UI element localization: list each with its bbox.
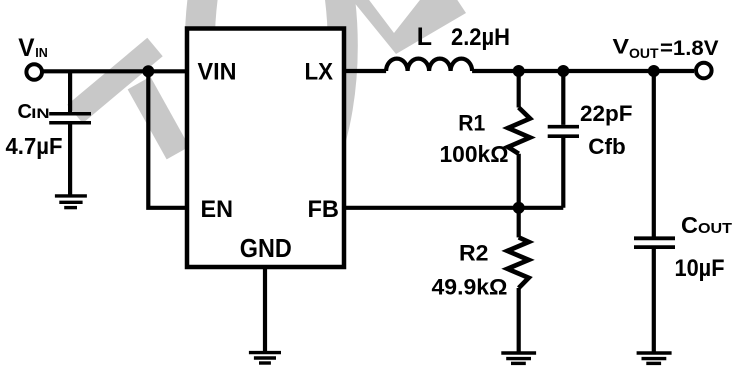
svg-text:100kΩ: 100kΩ: [440, 141, 509, 167]
svg-text:L: L: [417, 23, 432, 51]
svg-text:C: C: [18, 101, 32, 123]
svg-text:4.7µF: 4.7µF: [6, 133, 63, 159]
svg-text:OUT: OUT: [629, 45, 659, 61]
svg-text:EN: EN: [201, 196, 234, 223]
svg-text:10µF: 10µF: [675, 255, 725, 282]
svg-text:C: C: [681, 212, 698, 238]
svg-text:OUT: OUT: [698, 220, 732, 237]
svg-text:IN: IN: [31, 106, 49, 121]
svg-text:R1: R1: [458, 110, 485, 135]
svg-text:V: V: [18, 34, 35, 62]
svg-text:2.2µH: 2.2µH: [451, 24, 510, 51]
svg-text:22pF: 22pF: [580, 101, 633, 126]
svg-text:LX: LX: [305, 58, 334, 85]
svg-text:=1.8V: =1.8V: [660, 36, 719, 60]
svg-text:GND: GND: [240, 235, 292, 263]
svg-text:FB: FB: [308, 196, 340, 223]
svg-text:Cfb: Cfb: [588, 134, 626, 159]
svg-text:IN: IN: [35, 46, 48, 60]
svg-text:R2: R2: [459, 240, 489, 265]
svg-text:49.9kΩ: 49.9kΩ: [432, 275, 508, 300]
svg-text:V: V: [613, 35, 630, 59]
svg-text:VIN: VIN: [198, 58, 237, 85]
